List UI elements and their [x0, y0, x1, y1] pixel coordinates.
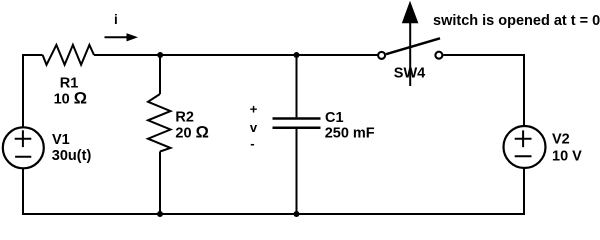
svg-text:-: - [250, 136, 254, 151]
wire: SW4 right terminal to V2 rail [443, 55, 524, 127]
resistor R1 [43, 45, 94, 65]
svg-text:10 V: 10 V [552, 148, 582, 164]
svg-text:switch is opened at t = 0: switch is opened at t = 0 [433, 13, 600, 29]
wire: R2 branch bottom [159, 152, 161, 215]
svg-text:30u(t): 30u(t) [52, 148, 92, 164]
svg-text:C1: C1 [325, 110, 344, 126]
voltage source V2 [504, 126, 546, 168]
svg-text:+: + [250, 102, 258, 117]
wire: V2 bottom rail [523, 168, 525, 215]
voltage source V1 [3, 127, 44, 168]
wire: bottom rail [22, 213, 525, 215]
current arrow i [105, 33, 139, 41]
svg-text:i: i [114, 12, 118, 27]
junction: R2 bottom node [157, 211, 163, 217]
switch SW4 [378, 38, 442, 59]
svg-text:V2: V2 [552, 132, 570, 148]
wire: top-left from V1 rail to R1 [23, 55, 43, 127]
capacitor C1 [273, 119, 321, 128]
resistor R2 [148, 94, 171, 152]
svg-text:SW4: SW4 [394, 65, 425, 81]
wire: C1 branch bottom [296, 129, 298, 214]
wire: R2 branch top [159, 55, 161, 94]
switch opening arrow [402, 1, 419, 86]
wire: C1 branch top [296, 55, 298, 117]
junction: R2 top node [157, 52, 163, 58]
svg-text:v: v [250, 120, 258, 135]
junction: C1 top node [294, 52, 300, 58]
svg-text:20 Ω: 20 Ω [175, 124, 208, 142]
svg-text:250 mF: 250 mF [325, 126, 375, 142]
svg-text:V1: V1 [52, 132, 70, 148]
svg-text:R2: R2 [175, 110, 194, 126]
svg-text:10 Ω: 10 Ω [54, 90, 87, 108]
wire: V1 bottom rail [22, 168, 24, 214]
junction: C1 bottom node [294, 211, 300, 217]
wire: top rail from R1 to SW4 left terminal [94, 54, 378, 56]
